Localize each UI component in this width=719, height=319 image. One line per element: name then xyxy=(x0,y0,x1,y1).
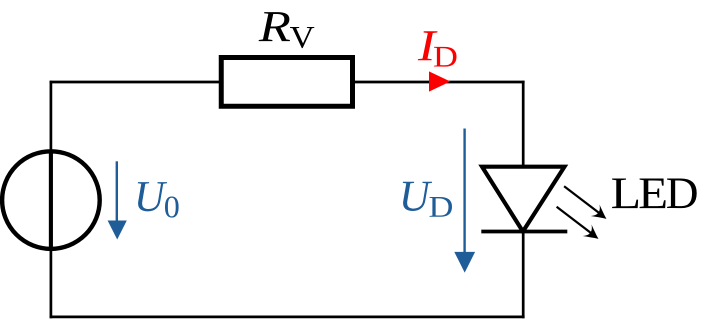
voltage U0 arrow xyxy=(116,161,118,222)
resistor RV body xyxy=(221,58,352,107)
voltage source U0 center line xyxy=(49,150,53,251)
LED light arrow 1 xyxy=(564,186,611,224)
voltage UD label xyxy=(403,182,432,211)
LED light arrow 2 xyxy=(557,207,603,245)
wire left segment xyxy=(50,81,53,319)
wire bottom segment xyxy=(50,316,525,319)
voltage UD arrow xyxy=(463,129,465,255)
voltage U0 label xyxy=(138,182,167,211)
LED diode triangle D1 xyxy=(482,167,565,232)
wire right segment xyxy=(522,81,525,319)
resistor RV label xyxy=(259,12,290,41)
LED cathode bar xyxy=(481,230,567,234)
current ID arrowhead xyxy=(429,71,450,91)
wire top segment xyxy=(50,81,525,84)
voltage source U0 circle xyxy=(2,151,100,249)
LED text label xyxy=(612,179,638,209)
current ID label xyxy=(418,31,438,60)
